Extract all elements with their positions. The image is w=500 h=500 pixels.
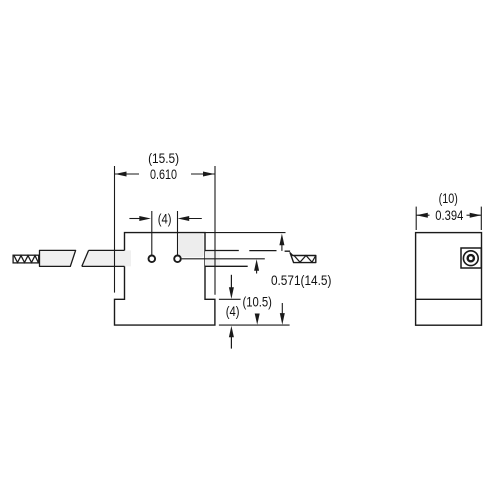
lamp holder body (side view) <box>416 233 482 326</box>
extension line: step edge extended right <box>219 298 241 300</box>
side view: connector square with socket <box>461 248 481 268</box>
svg-text:0.394: 0.394 <box>435 207 463 223</box>
dimension 0.610 (15.5) base width: extension lines <box>115 166 216 295</box>
dimension (10.5): arrows and label <box>242 259 272 325</box>
lead wire right: bare conductor end with braid hatching <box>290 253 316 263</box>
svg-text:(15.5): (15.5) <box>148 150 179 166</box>
svg-text:(10): (10) <box>439 190 458 206</box>
lead wire left: insulation segment 2 (enters body) <box>82 250 131 266</box>
pin 1 (left contact hole) <box>149 255 156 262</box>
extension line: body top edge extended right <box>205 232 286 234</box>
lead wire left: bare conductor with braid hatching <box>13 255 39 263</box>
dimension 0.610 (15.5): dimension line, arrows and labels <box>115 150 215 182</box>
lamp holder body (front view) <box>115 233 215 326</box>
pin 2 lead line to right <box>182 258 265 260</box>
svg-text:0.610: 0.610 <box>150 166 177 182</box>
lead wire left: insulation segment 1 <box>40 250 76 266</box>
pin 2 (right contact hole) <box>174 255 181 262</box>
svg-text:(4): (4) <box>158 210 172 226</box>
svg-text:0.571(14.5): 0.571(14.5) <box>271 272 332 288</box>
dimension (4) step height: arrows and label <box>226 275 240 349</box>
dimension (4) pin spacing: arrows and label <box>129 210 201 226</box>
dimension 0.571 (14.5) overall height: arrows and label <box>271 234 332 325</box>
dimension (4) pin spacing: extension lines <box>152 211 178 255</box>
svg-text:(10.5): (10.5) <box>242 294 272 310</box>
dimension 0.394 (10): dimension line, arrows and labels <box>416 190 481 223</box>
lead wire right: stub lines from body <box>205 251 290 267</box>
extension line: bottom edge extended right <box>219 324 290 326</box>
svg-text:(4): (4) <box>226 303 240 319</box>
dimension 0.394 (10) side width: extension lines <box>416 207 481 230</box>
shading inside body upper right <box>179 234 204 257</box>
